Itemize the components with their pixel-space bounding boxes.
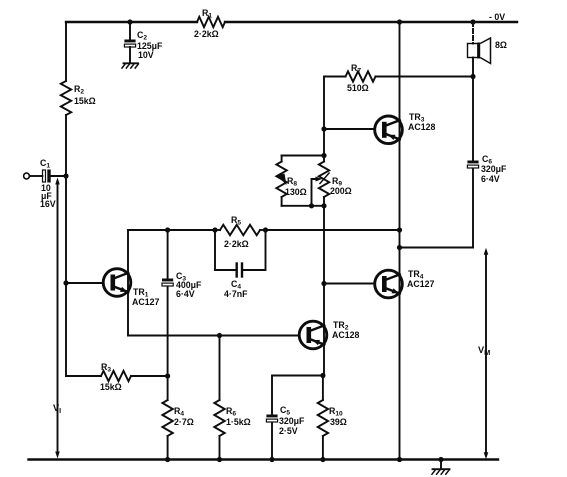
junction dot speaker/rail <box>470 19 475 24</box>
wire TR1 collector/emitter vertical <box>127 230 129 336</box>
wire main output vertical line <box>399 22 401 460</box>
wire C6 bottom link <box>400 247 474 249</box>
transistor TR2 AC128 <box>299 320 359 349</box>
junction dot rail C5 <box>269 457 274 462</box>
svg-text:10V: 10V <box>138 50 154 60</box>
junction dot C3 top <box>165 227 170 232</box>
junction dot TR1 base tap <box>63 280 68 285</box>
wire midline R7-left down to R8/R9 <box>323 77 325 156</box>
svg-text:15kΩ: 15kΩ <box>100 382 122 392</box>
svg-text:2·7Ω: 2·7Ω <box>174 417 194 427</box>
resistor R10 <box>318 376 347 461</box>
transistor TR1 AC127 <box>103 269 159 307</box>
resistor R7 <box>324 63 473 93</box>
resistor R2 <box>61 81 96 115</box>
junction dot output line bottom <box>397 457 402 462</box>
svg-text:8Ω: 8Ω <box>495 40 507 50</box>
capacitor C6 <box>467 77 507 248</box>
wire R8/R9 top link <box>282 155 324 157</box>
junction dot R5/C4 left <box>212 227 217 232</box>
transistor TR3 AC128 <box>375 112 436 144</box>
junction dot C1/input line <box>63 173 68 178</box>
resistor R3 <box>66 362 168 392</box>
resistor R1 <box>194 8 225 39</box>
junction dot feedback tap <box>397 227 402 232</box>
svg-text:AC128: AC128 <box>332 330 359 340</box>
svg-text:16V: 16V <box>40 199 56 209</box>
svg-text:- 0V: - 0V <box>489 12 505 22</box>
junction dot C2/rail <box>127 19 132 24</box>
svg-text:1·5kΩ: 1·5kΩ <box>226 417 251 427</box>
wire TR1 base from input line <box>66 282 103 284</box>
wire TR2 collector/emitter vertical <box>323 206 325 376</box>
wire bottom rail <box>29 458 499 460</box>
svg-text:15kΩ: 15kΩ <box>74 96 96 106</box>
capacitor C4 (parallel loop) <box>215 230 266 299</box>
wire TR4 base from midline <box>324 283 375 285</box>
annotation VM measurement line <box>478 248 490 459</box>
junction dot C6 wire tap <box>397 245 402 250</box>
resistor R9 (with wiper) <box>312 156 352 206</box>
junction dot R3/R4/C3 <box>165 373 170 378</box>
junction dot wiper bottom <box>309 203 314 208</box>
wire TR1 emitter node to R5/C3 (feedback rail) <box>128 229 400 231</box>
svg-text:2·5V: 2·5V <box>279 426 298 436</box>
wire top supply rail <box>66 21 517 23</box>
svg-text:320μF: 320μF <box>481 164 507 174</box>
svg-text:510Ω: 510Ω <box>347 83 369 93</box>
svg-text:2·2kΩ: 2·2kΩ <box>194 29 219 39</box>
svg-text:AC127: AC127 <box>132 297 159 307</box>
junction dot R5/C4 right <box>263 227 268 232</box>
wire TR3 base from midline <box>324 128 375 130</box>
junction dot TR3 base tap <box>321 126 326 131</box>
svg-text:200Ω: 200Ω <box>330 186 352 196</box>
junction dot rail R4 <box>165 457 170 462</box>
ground (C2) <box>122 63 139 68</box>
svg-text:39Ω: 39Ω <box>330 417 347 427</box>
resistor R5 <box>215 215 266 249</box>
loudspeaker 8ohm <box>468 22 507 77</box>
svg-text:320μF: 320μF <box>279 416 305 426</box>
annotation Vi measurement line <box>53 178 61 459</box>
resistor R8 (thermistor arrow) <box>276 156 306 206</box>
junction dot R7/speaker <box>470 74 475 79</box>
junction dot TR4 base tap <box>321 281 326 286</box>
svg-text:6·4V: 6·4V <box>481 174 500 184</box>
svg-text:6·4V: 6·4V <box>176 289 195 299</box>
transistor TR4 AC127 <box>375 269 435 298</box>
wire left vertical input bias line <box>65 22 67 376</box>
ground (bottom rail) <box>432 460 450 475</box>
junction dot output line top <box>397 19 402 24</box>
wire TR1 emitter bottom to TR2 base <box>128 335 300 337</box>
junction dot rail R6 <box>217 457 222 462</box>
junction dot R9 top <box>321 153 326 158</box>
junction dot R6 top <box>217 333 222 338</box>
capacitor C1 <box>24 158 66 209</box>
svg-text:AC127: AC127 <box>407 279 434 289</box>
resistor R6 <box>214 336 250 461</box>
junction dot R9 bottom <box>321 203 326 208</box>
svg-text:130Ω: 130Ω <box>285 187 307 197</box>
svg-text:AC128: AC128 <box>408 122 435 132</box>
svg-text:2·2kΩ: 2·2kΩ <box>224 239 249 249</box>
wire R8/R9 bottom link <box>282 205 324 207</box>
junction dot rail ground <box>438 457 443 462</box>
capacitor C5 <box>266 376 323 461</box>
capacitor C2 <box>124 22 163 63</box>
capacitor C3 <box>162 230 202 376</box>
svg-text:4·7nF: 4·7nF <box>224 289 248 299</box>
resistor R4 <box>162 376 193 460</box>
junction dot rail R10 <box>320 457 325 462</box>
junction dot C5/R10 <box>320 373 325 378</box>
